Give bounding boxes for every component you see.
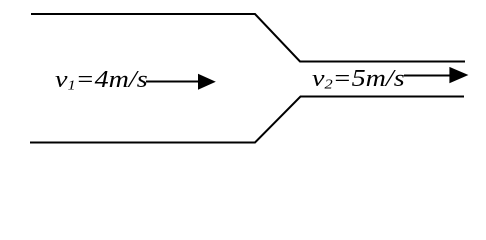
svg-text:v2=5m/s: v2=5m/s [312,65,405,92]
svg-text:v1=4m/s: v1=4m/s [55,66,148,93]
